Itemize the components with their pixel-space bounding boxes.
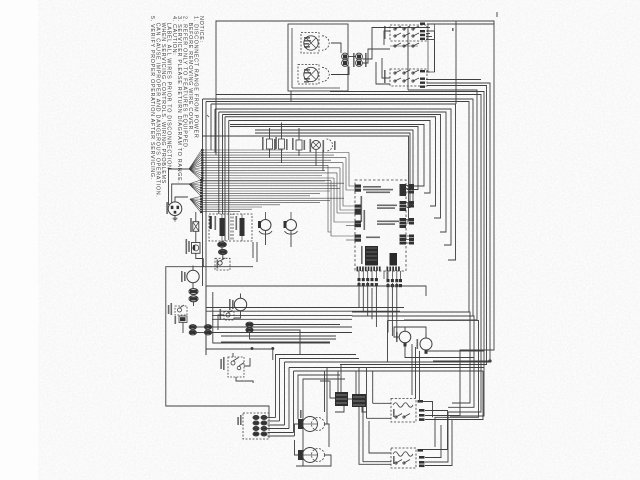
scan noise — [90, 5, 610, 475]
wire board drop bus — [358, 282, 360, 308]
oven relay — [224, 312, 234, 321]
board bottom stubs P6 — [387, 271, 389, 279]
oven lamp 2 — [298, 450, 303, 460]
board bottom stubs P5 — [358, 271, 360, 278]
wire lower bank left — [382, 58, 390, 78]
wire top inner stub — [407, 28, 409, 91]
wire lower rails — [285, 361, 491, 363]
control board outline dashed — [355, 180, 406, 271]
infinite switch upper box — [391, 399, 416, 423]
latch solenoid 2 — [286, 220, 297, 231]
oven light — [312, 141, 321, 150]
wire cluster to drops — [267, 417, 275, 419]
harness connector fan P1 — [189, 150, 202, 169]
junction dot — [489, 360, 491, 362]
surface element LF arc — [322, 67, 329, 81]
relay block K2 — [390, 253, 398, 266]
plug label — [166, 202, 168, 214]
oven lamp 1 — [298, 419, 303, 429]
connector P1 — [342, 53, 349, 60]
lower connector cluster box — [243, 413, 269, 439]
switch contacts upper — [395, 26, 401, 29]
wire cluster drop — [290, 91, 292, 102]
convection fan motor — [187, 270, 199, 282]
connector pair M1 — [189, 325, 196, 330]
board P5 stub second labels — [383, 271, 385, 279]
wire latch column — [221, 241, 223, 242]
board bottom pin row P6 — [387, 267, 389, 272]
harness connector fan P2 — [189, 180, 201, 184]
wire door lock — [232, 353, 234, 357]
wire main outer box — [216, 21, 494, 155]
power plug P9 — [168, 202, 182, 216]
wire surface to switches — [348, 56, 355, 58]
wire cluster feeds — [218, 112, 220, 214]
infinite switch upper wave — [393, 403, 413, 408]
wire mid pairs — [196, 326, 204, 328]
notice text block — [149, 16, 204, 198]
connector pair M2 — [204, 325, 211, 330]
wire infinite upper left — [373, 402, 391, 404]
surface element LF — [304, 67, 318, 81]
infinite switch lower box — [391, 448, 416, 468]
wire nested bus to control board — [404, 90, 477, 320]
labels lower bank — [420, 70, 425, 72]
svg-text:5. VERIFY PROPER OPERATION AFT: 5. VERIFY PROPER OPERATION AFTER SERVICI… — [149, 16, 155, 180]
wire right bus — [427, 24, 494, 350]
infinite switch upper contacts — [396, 414, 402, 418]
convection relay box — [175, 306, 187, 315]
door lock cluster box — [215, 258, 230, 270]
thermal fuse — [193, 222, 199, 232]
wire plug to fans — [175, 197, 188, 202]
cluster pairs — [253, 416, 259, 420]
switch bank upper box — [390, 25, 427, 41]
board left pin strip — [355, 185, 362, 188]
wire long left vertical A — [202, 99, 204, 286]
connector pair column — [218, 242, 226, 247]
board bottom pin row P5 — [357, 267, 359, 272]
switch bank lower box — [390, 69, 427, 86]
oven fan motor — [234, 298, 246, 310]
wire board feed verticals — [349, 153, 354, 187]
infinite switch lower contacts — [396, 460, 402, 464]
wire harness run 1 — [202, 149, 283, 151]
oven light switch box — [209, 214, 231, 241]
surface element LF box — [298, 65, 319, 85]
latch switch box — [233, 214, 252, 241]
wire lamps — [295, 424, 299, 436]
oven box outline — [206, 286, 426, 296]
wire tb feeds — [340, 365, 342, 393]
wire infinite feeds right — [423, 402, 433, 418]
wire rails to right — [206, 307, 404, 309]
door switch — [279, 139, 285, 149]
wire relay down — [182, 323, 184, 334]
wire motor box — [387, 320, 389, 362]
board text rows — [363, 186, 381, 188]
infinite switch lower labels — [418, 449, 424, 452]
wire infinite lower left — [369, 421, 391, 453]
wire motors — [394, 327, 426, 338]
board left stubs — [346, 225, 355, 227]
cooling fan motor 2 — [420, 338, 432, 350]
wire module junction — [202, 259, 204, 267]
switch contacts lower — [395, 70, 401, 73]
infinite switch upper labels — [418, 400, 424, 403]
wire oven internals — [234, 311, 241, 318]
surface element RF box — [301, 33, 319, 54]
motor capsule A — [189, 289, 198, 295]
tick mark top right — [496, 12, 498, 17]
wire harness run 3 — [201, 197, 344, 199]
wire fan3 drop — [195, 212, 197, 222]
connector P2 — [356, 53, 363, 60]
wire door lock drop — [236, 377, 245, 381]
board right stub labels — [406, 185, 413, 187]
switch bank mid contacts — [395, 43, 401, 46]
wire latch solenoid stubs — [265, 231, 267, 246]
surface unit assembly box — [288, 24, 348, 91]
oven sensor pair — [246, 322, 253, 327]
warming drawer label — [452, 28, 454, 31]
wire bus drop to harness — [210, 104, 212, 150]
motor capsule B — [189, 296, 198, 302]
wire bank labels right — [426, 33, 430, 35]
board right pin strip — [400, 184, 407, 187]
relay block K1 — [365, 246, 378, 266]
wire left rail — [166, 267, 269, 418]
surface element RF — [304, 36, 318, 50]
terminal block TB1 — [335, 392, 348, 406]
harness connector fan P3 — [190, 197, 201, 200]
latch solenoid — [260, 220, 271, 231]
wire conv motor — [192, 283, 194, 288]
meat probe jack — [296, 140, 302, 150]
wire mid row — [269, 128, 271, 139]
oven light2 arc — [327, 139, 333, 151]
board vertical label — [361, 196, 363, 222]
labels upper bank — [420, 23, 425, 25]
surface element RF arc — [322, 36, 329, 50]
wire fuse down — [195, 231, 197, 242]
wire long left vertical B — [205, 102, 207, 356]
switch bank upper wiring — [384, 31, 390, 45]
lock motor switch — [267, 139, 273, 149]
spark module — [192, 243, 201, 254]
terminal block TB2 — [352, 394, 366, 407]
relay lower box — [179, 316, 187, 323]
wire module down-right — [196, 253, 204, 258]
wire branch vertical — [455, 21, 457, 104]
ground — [174, 216, 176, 219]
cooling fan motor 1 — [399, 331, 411, 343]
wire right mid verticals — [388, 312, 470, 403]
wire harness run 2 — [201, 180, 325, 182]
infinite switch lower wave — [393, 452, 413, 457]
wire mid drop group — [276, 355, 357, 418]
door lock motor switch — [228, 357, 244, 377]
